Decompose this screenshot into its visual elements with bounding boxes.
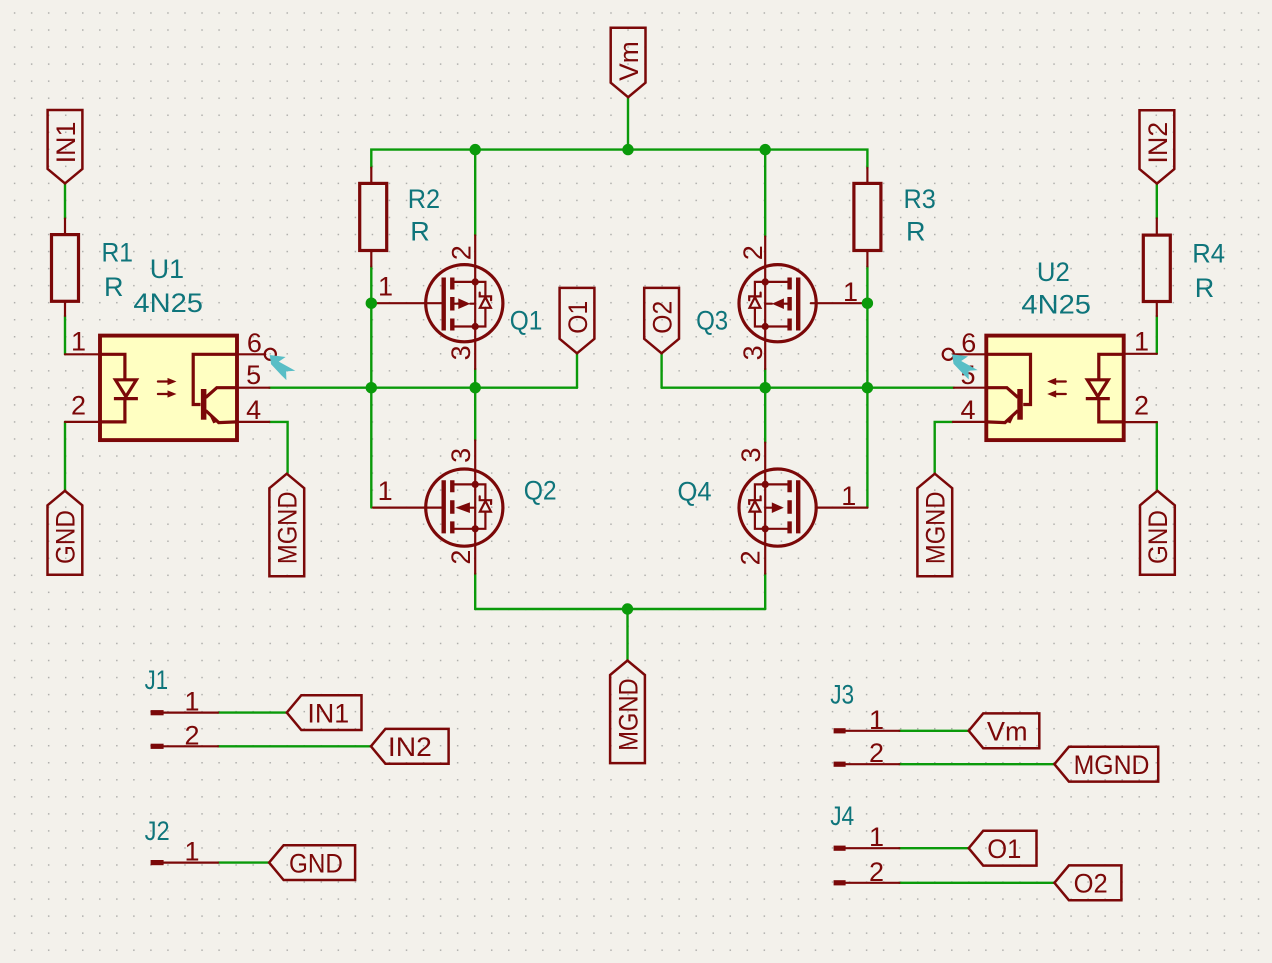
svg-text:5: 5 xyxy=(246,360,261,390)
J3 pin 1 xyxy=(834,728,846,733)
wire Q3 source to Q4 top xyxy=(764,369,766,443)
ground MGND (global label at J3.2) xyxy=(1054,747,1158,782)
svg-text:IN1: IN1 xyxy=(307,698,349,728)
U2 LED diode xyxy=(1086,354,1124,422)
svg-text:Q3: Q3 xyxy=(696,306,728,336)
node O2 (global label) xyxy=(644,288,679,353)
node IN1 (global label at J1.1) xyxy=(287,695,362,730)
svg-text:R: R xyxy=(104,272,124,302)
svg-text:R: R xyxy=(410,217,430,247)
wire O1 drop xyxy=(576,353,578,387)
svg-text:O2: O2 xyxy=(647,301,677,334)
power Vm (global label at J3.1) xyxy=(969,713,1040,748)
wire R1 to U1 pin1 xyxy=(64,316,66,354)
wire Q2 bottom to rail xyxy=(474,574,476,609)
ground MGND (left) xyxy=(269,474,304,577)
svg-text:U1: U1 xyxy=(150,254,184,284)
ground MGND (bottom) xyxy=(610,661,645,764)
wire top Vm rail xyxy=(371,150,867,168)
svg-text:2: 2 xyxy=(71,391,86,421)
wire U2 pin2 to GND xyxy=(1156,422,1158,490)
svg-text:Q2: Q2 xyxy=(524,476,557,506)
transistor Q1 xyxy=(373,235,542,369)
node IN2 (global label, top right) xyxy=(1140,110,1175,183)
power Vm (top) xyxy=(611,28,646,97)
svg-text:3: 3 xyxy=(446,345,476,360)
U2 pin6 (unconnected, open circle) xyxy=(943,328,987,360)
J3 pin 2 xyxy=(834,762,846,767)
svg-text:Vm: Vm xyxy=(987,717,1028,747)
svg-text:R2: R2 xyxy=(408,184,440,214)
svg-text:GND: GND xyxy=(1143,510,1173,564)
node IN1 (global label, top left) xyxy=(48,110,83,183)
ground GND (right) xyxy=(1140,491,1175,575)
U2 phototransistor xyxy=(986,354,1030,423)
svg-text:4N25: 4N25 xyxy=(133,288,203,318)
svg-text:2: 2 xyxy=(184,720,199,750)
op-amp U1 body (optocoupler 4N25) xyxy=(100,254,237,440)
svg-text:J2: J2 xyxy=(145,816,170,846)
svg-text:U2: U2 xyxy=(1037,257,1070,287)
wire R3 gate column xyxy=(866,266,868,507)
svg-text:Q1: Q1 xyxy=(510,306,543,336)
junction mid-right / gate column xyxy=(862,382,873,393)
wire J1 pin2 to IN2 xyxy=(218,745,371,747)
svg-text:J1: J1 xyxy=(145,665,169,695)
wire U2 pin4 to MGND xyxy=(935,422,953,473)
node IN2 (global label at J1.2) xyxy=(371,729,449,764)
svg-text:1: 1 xyxy=(184,687,199,717)
op-amp U2 body (optocoupler 4N25) xyxy=(986,257,1123,440)
transistor Q4 xyxy=(678,443,868,574)
svg-text:R3: R3 xyxy=(904,184,936,214)
wire J3 pin1 to Vm xyxy=(899,730,968,732)
cursor near U2 pin 6 xyxy=(952,354,978,379)
svg-text:O1: O1 xyxy=(987,834,1021,864)
U1 pin2 xyxy=(65,391,100,422)
svg-text:1: 1 xyxy=(378,272,393,302)
svg-text:GND: GND xyxy=(289,848,343,878)
svg-text:R4: R4 xyxy=(1192,238,1225,268)
wire mid-right horizontal net O2 xyxy=(662,387,954,389)
ground GND (left) xyxy=(48,491,83,575)
svg-text:MGND: MGND xyxy=(1074,750,1150,780)
svg-text:4: 4 xyxy=(960,395,975,425)
cursor near U1 pin 6 xyxy=(270,355,296,380)
node O1 (global label at J4.1) xyxy=(969,831,1037,866)
U1 pin5 xyxy=(237,360,269,390)
U1 pin1 xyxy=(65,326,100,356)
svg-text:2: 2 xyxy=(736,550,766,565)
svg-text:1: 1 xyxy=(71,326,86,356)
wire Q4 bottom to rail xyxy=(764,574,766,609)
svg-text:1: 1 xyxy=(843,277,858,307)
resistor R2 xyxy=(360,168,440,267)
resistor R4 xyxy=(1143,218,1225,316)
U1 light arrows xyxy=(158,378,177,398)
svg-text:J3: J3 xyxy=(830,679,854,709)
wire Q3 drain column xyxy=(764,150,766,237)
svg-text:MGND: MGND xyxy=(273,491,303,564)
svg-text:Q4: Q4 xyxy=(678,477,712,507)
J4 pin 2 xyxy=(834,880,846,885)
U2 pin5 xyxy=(954,360,986,390)
svg-text:O2: O2 xyxy=(1074,869,1108,899)
svg-text:1: 1 xyxy=(378,476,393,506)
connector J2 xyxy=(145,816,218,867)
J1 pin 2 xyxy=(151,744,164,749)
svg-text:6: 6 xyxy=(247,328,262,358)
wire IN2 to R4 xyxy=(1156,184,1158,219)
node O1 (global label) xyxy=(560,288,595,353)
wire J1 pin1 to IN1 xyxy=(218,711,287,713)
svg-text:3: 3 xyxy=(738,345,768,360)
junction Vm rail / Q3 drain xyxy=(760,144,771,155)
svg-text:1: 1 xyxy=(841,481,856,511)
wire Vm drop xyxy=(627,97,629,149)
wire J4 pin2 to O2 xyxy=(899,882,1054,884)
wire Q1 source to Q2 drain xyxy=(474,369,476,440)
wire J3 pin2 to MGND xyxy=(899,763,1054,765)
svg-text:1: 1 xyxy=(1134,326,1149,356)
svg-text:J4: J4 xyxy=(830,801,854,831)
svg-text:2: 2 xyxy=(869,738,884,768)
connector J4 xyxy=(830,801,899,887)
svg-text:GND: GND xyxy=(51,510,81,564)
svg-text:2: 2 xyxy=(869,857,884,887)
wire bottom MGND rail xyxy=(475,608,765,610)
svg-text:2: 2 xyxy=(446,550,476,565)
svg-text:3: 3 xyxy=(736,447,766,462)
U1 pin6 (unconnected, open circle) xyxy=(237,328,276,360)
svg-text:6: 6 xyxy=(961,328,976,358)
J2 pin 1 xyxy=(151,860,164,865)
svg-text:4N25: 4N25 xyxy=(1021,290,1091,320)
resistor R1 xyxy=(52,219,134,316)
svg-text:R: R xyxy=(906,217,926,247)
svg-text:R1: R1 xyxy=(102,238,134,268)
svg-text:O1: O1 xyxy=(563,301,593,334)
svg-text:4: 4 xyxy=(246,395,261,425)
U2 pin4 xyxy=(953,395,986,425)
connector J1 xyxy=(145,665,218,751)
svg-text:3: 3 xyxy=(446,448,476,463)
svg-text:MGND: MGND xyxy=(613,678,643,751)
wire IN1 to R1 xyxy=(64,184,66,219)
junction mid-left / Q1-Q2 column xyxy=(470,382,481,393)
J1 pin 1 xyxy=(151,710,164,715)
U2 pin1 xyxy=(1124,326,1157,356)
svg-text:IN1: IN1 xyxy=(51,122,81,164)
svg-text:IN2: IN2 xyxy=(1143,122,1173,164)
wire U1 pin2 to GND xyxy=(64,422,66,491)
resistor R3 xyxy=(854,168,936,266)
ground MGND (right) xyxy=(917,474,952,577)
svg-text:2: 2 xyxy=(738,245,768,260)
svg-text:1: 1 xyxy=(184,837,199,867)
junction Q1 gate xyxy=(366,298,377,309)
wire R4 to U2 pin1 xyxy=(1156,316,1158,354)
svg-text:2: 2 xyxy=(1134,391,1149,421)
junction mid-right / Q3-Q4 column xyxy=(760,382,771,393)
U1 pin4 xyxy=(237,395,269,425)
wire J4 pin1 to O1 xyxy=(899,847,968,849)
wire U1 pin4 to MGND xyxy=(269,422,287,473)
node O2 (global label at J4.2) xyxy=(1054,865,1121,900)
junction mid-left / gate column xyxy=(366,382,377,393)
junction Q3 gate xyxy=(862,298,873,309)
junction Vm rail / Vm drop xyxy=(622,144,633,155)
transistor Q3 xyxy=(696,237,861,370)
ground GND (global label at J2.1) xyxy=(269,845,355,880)
U2 light arrows xyxy=(1047,378,1066,398)
svg-text:2: 2 xyxy=(447,245,477,260)
transistor Q2 xyxy=(373,440,557,573)
wire MGND bottom drop xyxy=(626,609,628,661)
J4 pin 1 xyxy=(834,846,846,851)
U2 pin2 xyxy=(1124,391,1157,423)
wire Q1 drain column xyxy=(474,150,476,236)
wire O2 drop xyxy=(660,353,662,387)
wire J2 pin1 to GND xyxy=(218,861,269,863)
U1 phototransistor xyxy=(193,354,237,423)
svg-text:MGND: MGND xyxy=(921,491,951,564)
svg-text:Vm: Vm xyxy=(614,41,644,81)
junction bottom rail / MGND xyxy=(622,603,633,614)
svg-text:1: 1 xyxy=(869,705,884,735)
junction Vm rail / Q1 drain xyxy=(470,144,481,155)
U1 LED diode xyxy=(100,354,138,422)
svg-text:1: 1 xyxy=(869,822,884,852)
svg-text:IN2: IN2 xyxy=(388,732,432,762)
wire R2 gate column xyxy=(370,266,372,507)
svg-text:R: R xyxy=(1195,273,1215,303)
wire mid-left horizontal net O1 xyxy=(269,387,577,389)
connector J3 xyxy=(830,679,899,768)
